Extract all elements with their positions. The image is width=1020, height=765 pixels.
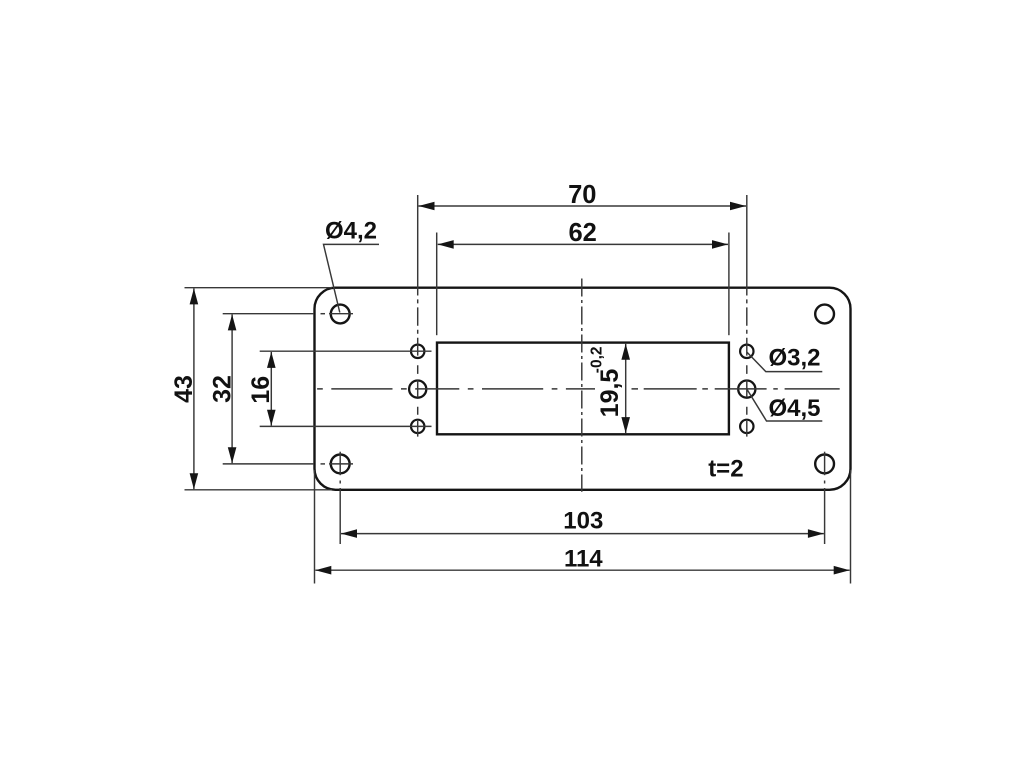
- 70 dimension line: [419, 205, 747, 207]
- 114 dim left extension: [314, 470, 316, 584]
- 32 dim bottom extension through bottom-left hole: [223, 463, 314, 465]
- svg-text:-0,2: -0,2: [589, 347, 606, 374]
- small hole right-bottom (Ø3,2): [740, 420, 753, 433]
- vertical centerline of plate: [581, 279, 583, 492]
- 103 dimension line: [341, 533, 824, 535]
- 16 dim bottom extension: [260, 425, 432, 427]
- arrow 114 left: [315, 566, 331, 575]
- left hole column centerline (dashed part): [417, 299, 419, 436]
- arrow 70 left: [419, 202, 435, 211]
- arrow 103 right: [808, 529, 824, 538]
- svg-text:16: 16: [247, 376, 275, 404]
- arrow 32 bottom: [228, 447, 237, 463]
- svg-text:19,5: 19,5: [596, 369, 624, 418]
- svg-text:t=2: t=2: [708, 455, 743, 482]
- right hole column extension (70 dim): [746, 195, 748, 296]
- arrow 19,5 bottom: [621, 417, 630, 433]
- small hole left-top (Ø3,2): [411, 345, 424, 358]
- corner hole bottom-right: [815, 455, 834, 474]
- corner hole top-left (Ø4,2): [331, 305, 350, 324]
- leader line for Ø4,5: [747, 389, 823, 421]
- arrow 62 right: [712, 240, 728, 249]
- svg-text:62: 62: [569, 219, 597, 247]
- 62 dim left extension: [436, 233, 438, 336]
- 114 dimension line: [315, 569, 849, 571]
- plate outline: [315, 288, 851, 490]
- small hole right-top (Ø3,2): [740, 345, 753, 358]
- arrow 70 right: [730, 202, 746, 211]
- svg-text:114: 114: [564, 546, 603, 573]
- right hole column centerline (dashed part): [746, 299, 748, 436]
- svg-text:Ø3,2: Ø3,2: [769, 345, 821, 372]
- svg-text:Ø4,5: Ø4,5: [769, 395, 821, 422]
- small hole left-bottom (Ø3,2): [411, 420, 424, 433]
- horizontal centerline right part: [632, 388, 840, 390]
- 16 dim top extension: [260, 350, 432, 352]
- arrow 16 top: [267, 352, 276, 368]
- arrow 19,5 top: [621, 344, 630, 360]
- corner hole bottom-left: [331, 455, 350, 474]
- small hole right-middle (Ø4,5): [738, 381, 755, 398]
- 114 dim right extension: [850, 470, 852, 584]
- dimension texts: [170, 181, 821, 572]
- arrow 43 top: [190, 288, 199, 304]
- svg-text:43: 43: [170, 375, 198, 403]
- bottom-left hole vertical centerline + 103 extension: [339, 452, 341, 476]
- svg-text:103: 103: [563, 508, 603, 535]
- 43 dim top extension: [185, 287, 333, 289]
- thin lines group: [185, 195, 851, 584]
- 62 dimension line: [438, 243, 728, 245]
- arrowheads: [190, 202, 850, 575]
- 43 dim bottom extension: [185, 489, 333, 491]
- bottom-right hole vertical centerline + 103 extension: [824, 452, 826, 476]
- svg-text:70: 70: [568, 181, 596, 209]
- small hole left-middle (Ø4,5): [409, 381, 426, 398]
- leader line for Ø3,2: [747, 352, 823, 372]
- arrow 62 left: [438, 240, 454, 249]
- arrow 32 top: [228, 314, 237, 330]
- 32 dimension line: [231, 314, 233, 463]
- arrow 103 left: [341, 529, 357, 538]
- svg-text:32: 32: [209, 375, 237, 403]
- arrow 114 right: [834, 566, 850, 575]
- left hole column extension (70 dim): [417, 195, 419, 296]
- leader line for Ø4,2: [324, 244, 380, 312]
- corner hole top-right: [815, 305, 834, 324]
- 16 dimension line: [270, 352, 272, 426]
- 19,5 dimension line: [625, 344, 627, 433]
- 32 dim top extension through top-left hole: [223, 313, 314, 315]
- horizontal centerline left part: [317, 388, 595, 390]
- arrow 16 bottom: [267, 410, 276, 426]
- 62 dim right extension: [728, 233, 730, 336]
- 43 dimension line: [193, 288, 195, 489]
- arrow 43 bottom: [190, 473, 199, 489]
- svg-text:Ø4,2: Ø4,2: [325, 218, 377, 245]
- central cutout: [437, 343, 729, 435]
